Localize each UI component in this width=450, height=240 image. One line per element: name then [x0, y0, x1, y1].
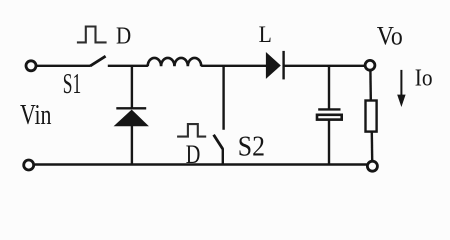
capacitor top plate: [318, 108, 340, 110]
svg-text:Io: Io: [415, 65, 433, 91]
freewheel diode triangle (pointing up): [114, 110, 149, 127]
wire: switch S2 branch upper lead: [222, 66, 224, 130]
wire top rail: inductor to diode D (through node at x=223.8): [201, 65, 266, 67]
inductor L: [148, 58, 202, 66]
diode D (series, anode left) triangle: [266, 52, 281, 79]
wire top rail: diode to Vo terminal (through node at x=329): [284, 65, 365, 67]
terminal input top (circle): [26, 61, 36, 71]
wire: load branch upper lead from Vo terminal: [369, 70, 372, 100]
Io current arrow: [397, 70, 405, 107]
wire bottom rail: [35, 163, 367, 165]
svg-text:Vin: Vin: [20, 100, 52, 131]
wire: freewheel diode branch lower lead: [131, 126, 133, 165]
svg-text:S1: S1: [63, 69, 81, 100]
svg-text:D: D: [186, 140, 201, 169]
terminal input bottom (circle): [24, 160, 34, 170]
svg-text:S2: S2: [238, 130, 265, 162]
wire: switch S2 branch lower lead: [222, 148, 224, 164]
capacitor bottom plate (rectangle): [317, 115, 342, 120]
wire top rail: S1 to inductor (through node at x=131.9): [108, 65, 148, 67]
pulse waveform symbol for S2: [177, 124, 206, 137]
wire top rail: input terminal to switch S1: [37, 65, 91, 67]
terminal output bottom (circle): [367, 161, 377, 171]
svg-text:D: D: [116, 22, 131, 49]
svg-text:L: L: [259, 22, 272, 48]
svg-text:Vo: Vo: [377, 21, 403, 50]
terminal Vo output top (circle): [365, 60, 375, 70]
resistor R load: [366, 101, 377, 132]
wire: capacitor branch lower lead: [328, 121, 330, 165]
pulse waveform symbol for S1: [77, 27, 107, 43]
wire: capacitor branch upper lead: [328, 66, 330, 110]
wire: load branch lower lead: [371, 132, 374, 161]
switch S1 blade: [90, 56, 105, 66]
freewheel diode cathode bar: [116, 107, 146, 109]
diode D cathode bar: [282, 51, 284, 80]
switch S2 blade: [214, 135, 223, 149]
wire: freewheel diode branch upper lead: [131, 66, 133, 109]
